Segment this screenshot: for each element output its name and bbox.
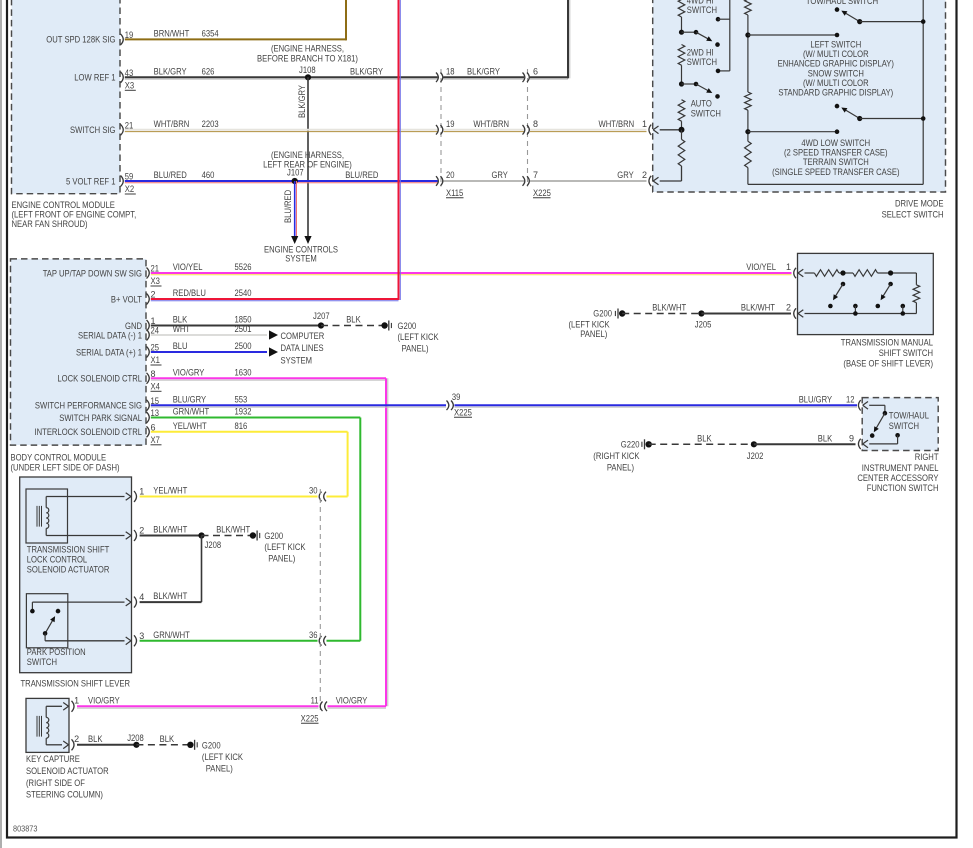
junction J107: [292, 178, 298, 184]
wire GRY seg 20-7: [444, 180, 525, 182]
wire RED/BLU 2540: [151, 298, 399, 300]
svg-text:1: 1: [139, 487, 144, 497]
svg-text:TOW/HAUL: TOW/HAUL: [889, 411, 929, 421]
park position switch inner box: [26, 594, 67, 648]
svg-text:J107: J107: [287, 168, 304, 178]
TMSS switch B: [888, 270, 893, 275]
junction J108: [305, 74, 311, 80]
junction J208 (lever): [198, 532, 204, 538]
svg-text:SERIAL DATA (+) 1: SERIAL DATA (+) 1: [76, 347, 142, 357]
svg-text:X4: X4: [151, 381, 160, 391]
svg-text:TOW/HAUL SWITCH: TOW/HAUL SWITCH: [806, 0, 878, 6]
tow/haul switch box: [862, 398, 938, 451]
wire WHT/BRN to drive mode pin 1: [530, 129, 647, 131]
lever pin 3: [45, 640, 124, 642]
wire BLK/GRY 626 low-ref: [125, 76, 438, 78]
svg-text:PANEL): PANEL): [268, 553, 295, 563]
svg-text:TRANSMISSION SHIFT: TRANSMISSION SHIFT: [27, 545, 110, 555]
svg-text:39: 39: [452, 392, 461, 402]
svg-text:J208: J208: [205, 540, 222, 550]
wire VIO/GRY to conn 11: [77, 705, 319, 707]
svg-text:BLK: BLK: [173, 315, 188, 325]
svg-text:BODY CONTROL MODULE: BODY CONTROL MODULE: [11, 453, 107, 463]
svg-text:X225: X225: [454, 407, 472, 417]
svg-text:(LEFT KICK: (LEFT KICK: [398, 332, 439, 342]
svg-text:VIO/YEL: VIO/YEL: [746, 262, 776, 272]
svg-text:SWITCH: SWITCH: [687, 5, 717, 15]
svg-text:BEFORE BRANCH TO X181): BEFORE BRANCH TO X181): [257, 53, 358, 63]
svg-text:RIGHT: RIGHT: [915, 452, 939, 462]
wire WHT 2501 serial-: [151, 334, 267, 336]
svg-text:20: 20: [446, 170, 455, 180]
junction J202: [751, 441, 757, 447]
svg-text:YEL/WHT: YEL/WHT: [153, 486, 187, 496]
dashed BLK to G200 (key): [136, 744, 190, 746]
svg-text:WHT: WHT: [173, 324, 191, 334]
svg-text:BLK/GRY: BLK/GRY: [154, 66, 187, 76]
row line 4wd-low/terrain: [745, 129, 750, 134]
svg-text:553: 553: [235, 394, 248, 404]
svg-text:WHT/BRN: WHT/BRN: [473, 119, 509, 129]
wire BLK/WHT pin4 riser: [140, 601, 202, 603]
svg-text:19: 19: [446, 119, 455, 129]
svg-text:TRANSMISSION MANUAL: TRANSMISSION MANUAL: [841, 338, 933, 348]
svg-text:(W/ MULTI COLOR: (W/ MULTI COLOR: [803, 49, 869, 59]
svg-text:(ENGINE HARNESS,: (ENGINE HARNESS,: [271, 44, 344, 54]
svg-text:36: 36: [309, 630, 318, 640]
key capture pin 2: [46, 744, 62, 746]
park position switch symbol: [31, 602, 33, 611]
junction J207: [318, 322, 324, 328]
tow/haul internals: [869, 404, 885, 406]
dashed BLK/WHT to G200 (lever): [202, 535, 253, 537]
svg-text:PANEL): PANEL): [580, 329, 607, 339]
svg-text:GND: GND: [125, 321, 142, 331]
wire GRN/WHT pin3 to conn 36: [140, 640, 318, 642]
wire YEL/WHT riser right: [327, 496, 348, 498]
connector X115: [440, 69, 442, 187]
svg-text:BLK: BLK: [697, 433, 712, 443]
transmission shift lever box: [20, 477, 132, 673]
svg-text:9: 9: [849, 433, 854, 443]
svg-text:BLK/GRY: BLK/GRY: [350, 66, 383, 76]
TMSS switch A: [840, 270, 845, 275]
svg-text:DATA LINES: DATA LINES: [281, 343, 324, 353]
svg-text:TAP UP/TAP DOWN SW SIG: TAP UP/TAP DOWN SW SIG: [43, 268, 142, 278]
svg-text:SWITCH: SWITCH: [889, 421, 919, 431]
wire BLK/WHT to TMSS pin2: [701, 313, 791, 315]
svg-text:RED/BLU: RED/BLU: [173, 288, 206, 298]
svg-text:BLK/WHT: BLK/WHT: [153, 525, 187, 535]
contact bus 4WD/2WD: [716, 17, 721, 22]
dashed BLK to G200: [321, 325, 385, 327]
svg-text:SWITCH SIG: SWITCH SIG: [70, 125, 116, 135]
svg-text:(RIGHT SIDE OF: (RIGHT SIDE OF: [26, 778, 85, 788]
svg-text:(2 SPEED TRANSFER CASE): (2 SPEED TRANSFER CASE): [784, 148, 888, 158]
svg-text:PANEL): PANEL): [607, 463, 634, 473]
svg-text:AUTO: AUTO: [691, 98, 712, 108]
svg-text:1850: 1850: [235, 315, 252, 325]
dashed BLK/WHT to J205: [622, 313, 701, 315]
svg-text:626: 626: [202, 66, 215, 76]
svg-text:BRN/WHT: BRN/WHT: [154, 28, 190, 38]
svg-text:2501: 2501: [235, 324, 252, 334]
transmission manual shift switch box: [798, 253, 934, 334]
drive mode pin 2: [653, 177, 658, 181]
svg-text:J108: J108: [299, 65, 316, 75]
svg-text:816: 816: [235, 421, 248, 431]
wire pin1 to chain: [660, 129, 682, 131]
solenoid actuator inner box: [26, 489, 68, 543]
svg-text:WHT/BRN: WHT/BRN: [599, 119, 635, 129]
svg-text:J205: J205: [695, 320, 712, 330]
svg-text:1932: 1932: [235, 407, 252, 417]
svg-text:WHT/BRN: WHT/BRN: [154, 119, 190, 129]
wire WHT/BRN 2203 switch-sig: [125, 129, 438, 131]
wire BLK/GRY drop to engine controls: [307, 77, 309, 236]
svg-text:LOCK SOLENOID CTRL: LOCK SOLENOID CTRL: [57, 374, 142, 384]
svg-text:X3: X3: [151, 276, 160, 286]
svg-text:SELECT SWITCH: SELECT SWITCH: [882, 210, 944, 220]
svg-text:NEAR FAN SHROUD): NEAR FAN SHROUD): [12, 219, 88, 229]
svg-text:2: 2: [642, 170, 647, 180]
wire GRN/WHT 1932 park signal: [151, 417, 360, 419]
svg-text:SYSTEM: SYSTEM: [285, 253, 317, 263]
svg-text:X7: X7: [151, 435, 160, 445]
svg-text:G200: G200: [593, 309, 612, 319]
svg-text:CENTER ACCESSORY: CENTER ACCESSORY: [857, 473, 938, 483]
lever pin 1: [46, 496, 124, 498]
svg-text:BLU/RED: BLU/RED: [154, 170, 188, 180]
svg-text:TRANSMISSION SHIFT LEVER: TRANSMISSION SHIFT LEVER: [21, 679, 131, 689]
svg-text:2: 2: [786, 303, 791, 313]
svg-text:18: 18: [446, 66, 455, 76]
node chain-pin1: [679, 127, 685, 133]
svg-text:BLK/WHT: BLK/WHT: [216, 525, 250, 535]
svg-text:(UNDER LEFT SIDE OF DASH): (UNDER LEFT SIDE OF DASH): [11, 463, 120, 473]
svg-text:803873: 803873: [13, 824, 38, 834]
connector 36: [319, 636, 321, 646]
wire BLK 1850 gnd: [151, 325, 321, 327]
svg-text:(LEFT KICK: (LEFT KICK: [202, 752, 243, 762]
wire GRY to drive mode pin 2: [530, 180, 647, 182]
svg-text:5526: 5526: [235, 262, 252, 272]
svg-text:BLK/GRY: BLK/GRY: [467, 66, 500, 76]
svg-text:SHIFT SWITCH: SHIFT SWITCH: [879, 348, 933, 358]
tow/haul pin 12: [863, 402, 868, 406]
svg-text:VIO/GRY: VIO/GRY: [173, 367, 205, 377]
svg-text:6: 6: [533, 66, 538, 76]
svg-text:STEERING COLUMN): STEERING COLUMN): [26, 790, 103, 800]
key capture coil: [36, 716, 38, 737]
svg-text:(LEFT KICK: (LEFT KICK: [569, 319, 610, 329]
svg-text:SNOW SWITCH: SNOW SWITCH: [808, 68, 864, 78]
drive mode select switch box: [653, 0, 946, 192]
row line left/snow: [745, 32, 750, 37]
svg-text:J208: J208: [127, 733, 144, 743]
ground G200 (lever): [250, 532, 256, 538]
svg-text:1: 1: [74, 695, 79, 705]
svg-text:G200: G200: [398, 321, 417, 331]
svg-text:PANEL): PANEL): [206, 764, 233, 774]
svg-text:GRN/WHT: GRN/WHT: [173, 407, 210, 417]
svg-text:X225: X225: [533, 188, 551, 198]
svg-text:GRY: GRY: [617, 170, 633, 180]
svg-text:LEFT SWITCH: LEFT SWITCH: [810, 40, 861, 50]
svg-text:VIO/YEL: VIO/YEL: [173, 262, 203, 272]
TMSS pin 2: [798, 310, 803, 314]
svg-text:7: 7: [533, 170, 538, 180]
svg-text:G220: G220: [621, 439, 640, 449]
svg-text:ENHANCED GRAPHIC DISPLAY): ENHANCED GRAPHIC DISPLAY): [778, 59, 894, 69]
svg-text:BLK/WHT: BLK/WHT: [741, 303, 775, 313]
svg-text:BLU/RED: BLU/RED: [283, 189, 293, 223]
svg-text:GRN/WHT: GRN/WHT: [153, 630, 190, 640]
ground G200 left kick: [381, 322, 387, 328]
ground G200 (key): [187, 742, 193, 748]
svg-text:SYSTEM: SYSTEM: [281, 356, 313, 366]
svg-text:SWITCH PARK SIGNAL: SWITCH PARK SIGNAL: [59, 413, 142, 423]
wire BLK to tow/haul pin 9: [754, 443, 856, 445]
svg-text:BLU/RED: BLU/RED: [345, 170, 379, 180]
svg-text:BLK: BLK: [346, 315, 361, 325]
svg-text:(W/ MULTI COLOR: (W/ MULTI COLOR: [803, 78, 869, 88]
module ECM box: [12, 0, 121, 194]
svg-text:2: 2: [74, 734, 79, 744]
svg-text:B+ VOLT: B+ VOLT: [111, 294, 143, 304]
svg-text:LOCK CONTROL: LOCK CONTROL: [27, 555, 87, 565]
svg-text:LOW REF 1: LOW REF 1: [74, 73, 115, 83]
svg-text:STANDARD GRAPHIC DISPLAY): STANDARD GRAPHIC DISPLAY): [778, 88, 893, 98]
svg-text:FUNCTION SWITCH: FUNCTION SWITCH: [867, 483, 939, 493]
svg-text:3: 3: [139, 631, 144, 641]
svg-text:1: 1: [642, 119, 647, 129]
TMSS pin 1: [798, 269, 803, 273]
svg-text:30: 30: [309, 486, 318, 496]
wire BLK/GRY seg 18-6: [444, 76, 525, 78]
wire VIO/YEL 5526: [151, 272, 792, 274]
svg-text:ENGINE CONTROL MODULE: ENGINE CONTROL MODULE: [12, 200, 115, 210]
svg-text:4: 4: [139, 592, 144, 602]
junction J208 (key): [133, 742, 139, 748]
switch 4wd-low: [835, 104, 840, 109]
connector X225 bottom dashed line: [319, 489, 321, 712]
resistor below pin1: [681, 130, 683, 140]
svg-text:G200: G200: [202, 740, 221, 750]
wire GRN/WHT riser right: [327, 640, 361, 642]
svg-text:4WD LOW SWITCH: 4WD LOW SWITCH: [801, 138, 870, 148]
svg-text:TERRAIN SWITCH: TERRAIN SWITCH: [803, 157, 869, 167]
solenoid coil: [36, 506, 38, 527]
switch 4WD HI: [679, 30, 684, 35]
resistor AUTO: [678, 100, 685, 122]
svg-text:6354: 6354: [202, 28, 219, 38]
svg-text:PARK POSITION: PARK POSITION: [27, 647, 86, 657]
svg-text:G200: G200: [264, 531, 283, 541]
lever pin 2: [46, 535, 124, 537]
svg-text:GRY: GRY: [492, 170, 508, 180]
connector X225 top: [527, 69, 529, 187]
svg-text:VIO/GRY: VIO/GRY: [336, 695, 368, 705]
wire BLU/RED drop to engine controls: [294, 181, 296, 237]
wire BLK/GRY exit top: [530, 76, 568, 78]
key capture solenoid box: [26, 698, 69, 752]
svg-text:X2: X2: [125, 184, 134, 194]
wire VIO/GRY 1630 lock solenoid: [151, 377, 386, 379]
wire VIO/GRY riser right: [328, 705, 387, 707]
svg-text:SWITCH: SWITCH: [687, 57, 717, 67]
key capture pin 1: [46, 705, 62, 707]
svg-text:460: 460: [202, 170, 215, 180]
switch 2WD HI: [679, 81, 684, 86]
svg-text:PANEL): PANEL): [402, 343, 429, 353]
wire BLU/GRY 553 switch performance: [151, 404, 446, 406]
module BCM box: [11, 259, 147, 445]
svg-text:(BASE OF SHIFT LEVER): (BASE OF SHIFT LEVER): [843, 358, 933, 368]
wire BLU/GRY to tow/haul: [455, 404, 858, 406]
wire BLK key capture to J208: [77, 744, 136, 746]
svg-text:(RIGHT KICK: (RIGHT KICK: [593, 451, 639, 461]
resistor 2WD HI: [678, 45, 685, 66]
svg-text:BLU: BLU: [173, 341, 188, 351]
svg-text:OUT SPD 128K SIG: OUT SPD 128K SIG: [46, 35, 115, 45]
svg-text:2540: 2540: [235, 288, 252, 298]
wire WHT/BRN seg 19-8: [444, 129, 525, 131]
svg-text:(LEFT FRONT OF ENGINE COMPT,: (LEFT FRONT OF ENGINE COMPT,: [12, 210, 137, 220]
svg-text:(ENGINE HARNESS,: (ENGINE HARNESS,: [271, 150, 344, 160]
wire BLK/WHT pin2 to J208: [140, 535, 202, 537]
connector 11: [320, 702, 322, 712]
junction J205: [698, 310, 704, 316]
svg-text:2: 2: [139, 526, 144, 536]
svg-text:5 VOLT REF 1: 5 VOLT REF 1: [66, 176, 116, 186]
wire YEL/WHT pin1 to conn 30: [140, 496, 318, 498]
tow/haul pin 9: [863, 440, 868, 444]
svg-text:BLU/GRY: BLU/GRY: [799, 394, 832, 404]
connector 30: [319, 492, 321, 502]
svg-text:SWITCH: SWITCH: [27, 657, 57, 667]
svg-text:COMPUTER: COMPUTER: [281, 331, 325, 341]
svg-text:YEL/WHT: YEL/WHT: [173, 421, 207, 431]
svg-text:2WD HI: 2WD HI: [687, 48, 714, 58]
svg-text:1630: 1630: [235, 367, 252, 377]
svg-text:LEFT REAR OF ENGINE): LEFT REAR OF ENGINE): [263, 160, 352, 170]
connector 39 X225: [447, 401, 449, 411]
svg-text:X115: X115: [446, 188, 463, 198]
lever pin 4: [32, 601, 124, 603]
svg-text:BLK: BLK: [818, 433, 833, 443]
svg-text:J207: J207: [313, 311, 330, 321]
wire BLU 2500 serial+: [151, 351, 267, 353]
svg-text:2203: 2203: [202, 119, 219, 129]
svg-text:BLU/GRY: BLU/GRY: [173, 394, 206, 404]
svg-text:INTERLOCK SOLENOID CTRL: INTERLOCK SOLENOID CTRL: [35, 427, 143, 437]
wire YEL/WHT 816 interlock: [151, 431, 348, 433]
svg-text:DRIVE MODE: DRIVE MODE: [895, 199, 944, 209]
svg-text:BLK/WHT: BLK/WHT: [153, 591, 187, 601]
svg-text:8: 8: [533, 119, 538, 129]
svg-text:BLK/GRY: BLK/GRY: [297, 85, 307, 118]
svg-text:X3: X3: [125, 80, 134, 90]
svg-text:VIO/GRY: VIO/GRY: [88, 695, 120, 705]
svg-text:SWITCH: SWITCH: [691, 108, 721, 118]
svg-text:(SINGLE SPEED TRANSFER CASE): (SINGLE SPEED TRANSFER CASE): [772, 167, 899, 177]
svg-text:BLK: BLK: [88, 734, 103, 744]
inner box left edge with resistors: [745, 0, 752, 15]
svg-text:1: 1: [786, 262, 791, 272]
svg-text:SERIAL DATA (-) 1: SERIAL DATA (-) 1: [78, 330, 142, 340]
svg-text:J202: J202: [747, 451, 764, 461]
TMSS internal top rail: [805, 272, 815, 274]
svg-text:SOLENOID ACTUATOR: SOLENOID ACTUATOR: [27, 565, 110, 575]
drive mode pin 1: [653, 126, 658, 130]
svg-text:SWITCH PERFORMANCE SIG: SWITCH PERFORMANCE SIG: [35, 401, 142, 411]
svg-text:12: 12: [846, 394, 855, 404]
svg-text:BLK/WHT: BLK/WHT: [652, 303, 686, 313]
svg-text:X225: X225: [301, 714, 319, 724]
svg-text:SOLENOID ACTUATOR: SOLENOID ACTUATOR: [26, 766, 109, 776]
svg-text:2500: 2500: [235, 341, 252, 351]
svg-text:KEY CAPTURE: KEY CAPTURE: [26, 754, 80, 764]
wire BLU/RED 460 5v-ref: [125, 180, 438, 182]
dashed BLK to J202: [649, 443, 754, 445]
svg-text:X1: X1: [151, 355, 160, 365]
svg-text:BLK: BLK: [160, 734, 175, 744]
svg-text:(LEFT KICK: (LEFT KICK: [264, 542, 305, 552]
wire BRN/WHT 6354 out-spd: [125, 38, 346, 40]
resistor chain top (4WD HI): [678, 0, 685, 17]
wire pin2 riser: [660, 180, 682, 182]
TMSS bottom rail: [805, 313, 917, 315]
svg-text:INSTRUMENT PANEL: INSTRUMENT PANEL: [862, 463, 939, 473]
switch tow/haul top: [835, 7, 840, 12]
svg-text:11: 11: [311, 695, 319, 705]
